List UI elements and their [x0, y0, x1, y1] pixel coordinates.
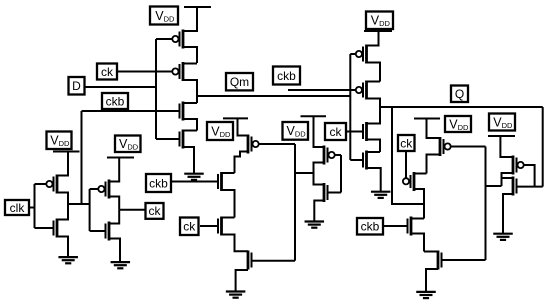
svg-text:ck: ck — [149, 204, 162, 218]
VDD label box (keeper inverter) — [283, 122, 309, 140]
wire keeper inverter output — [295, 172, 314, 174]
svg-text:DD: DD — [458, 123, 469, 132]
svg-text:DD: DD — [59, 139, 70, 148]
pmos P9 (slave keeper, mirrored) — [427, 119, 486, 174]
svg-text:ckb: ckb — [149, 176, 168, 190]
nmos F1 (slave keeper, gate ckb) — [408, 217, 425, 252]
node master keeper input bus — [294, 144, 296, 261]
D label box — [69, 77, 85, 95]
node Qm output wire — [197, 95, 350, 97]
svg-text:Q: Q — [455, 87, 464, 101]
node keeper inverter gate bus — [340, 155, 342, 193]
VDD label box (inverter 2) — [115, 136, 141, 153]
wire ck node — [119, 209, 146, 211]
nmos T1 (master keeper, gate ckb) — [218, 172, 235, 218]
svg-text:DD: DD — [502, 121, 513, 130]
svg-text:ckb: ckb — [361, 220, 380, 234]
VDD rail (slave stage) — [364, 30, 392, 32]
ckb label box (slave P8 gate) — [273, 67, 300, 85]
VDD rail (output inverter) — [488, 135, 515, 137]
pmos P3 (inverter 1) — [35, 152, 69, 205]
VDD rail (keeper inverter) — [301, 115, 327, 117]
ckb label box (keeper F1 gate) — [357, 218, 383, 235]
VDD rail (master stage) — [183, 7, 211, 31]
ground (master keeper) — [226, 292, 246, 298]
node inverter 2 gate bus — [89, 189, 91, 231]
nmos F2 (slave keeper, mirrored) — [424, 251, 486, 292]
wire Q feedback tap — [392, 107, 424, 204]
nmos N11 (output inverter, mirrored) — [502, 177, 543, 234]
nmos N6 (keeper inverter, mirrored) — [314, 173, 342, 222]
wire Qbar output — [486, 185, 502, 187]
ck label box (master P2 gate) — [97, 64, 117, 80]
svg-text:Qm: Qm — [230, 75, 249, 89]
ground (slave keeper) — [416, 292, 436, 298]
pmos P2 (master, gate ck) — [172, 62, 197, 103]
wire ck to P10 gate — [405, 151, 407, 178]
ground (master) — [184, 174, 204, 180]
svg-text:ckb: ckb — [277, 69, 296, 83]
node output inverter gate bus — [542, 107, 544, 187]
svg-text:DD: DD — [379, 19, 390, 28]
Qm label box — [226, 73, 253, 90]
pmos P8 (slave, gate ckb) — [356, 81, 380, 108]
VDD label box (master) — [150, 7, 178, 25]
nmos N4 (inverter 2) — [90, 210, 120, 262]
ckb label box (keeper T1 gate) — [146, 174, 171, 192]
ground (keeper inverter) — [305, 222, 325, 228]
wire ckb riser — [81, 111, 83, 204]
wire ckb to P8 gate — [288, 89, 356, 91]
svg-text:ckb: ckb — [106, 94, 125, 108]
pmos P5 (master keeper, mirrored) — [235, 118, 296, 173]
wire ckb node — [68, 203, 90, 205]
nmos N7 (slave, gate ck) — [363, 107, 380, 152]
VDD rail (master keeper) — [223, 117, 248, 119]
wire ckb to N1 gate — [82, 110, 179, 112]
wire ckb to F1 gate — [383, 225, 407, 227]
nmos N1 (master, gate ckb) — [180, 102, 198, 131]
node Q output wire — [380, 106, 543, 108]
pmos P10 (slave keeper, gate ck) — [403, 172, 427, 219]
node inverter 1 gate bus — [34, 184, 36, 228]
nmos N2 (master, gate D) — [156, 130, 197, 174]
wire ck to N7 gate — [346, 131, 362, 133]
ck label box (slave N7 gate) — [325, 123, 346, 140]
ck label box (keeper T2 gate) — [180, 218, 199, 236]
VDD label box (slave) — [366, 12, 393, 30]
nmos N8 (slave, gate Qm) — [350, 151, 380, 192]
pmos P11 (output inverter, mirrored) — [500, 136, 534, 187]
pmos P1 (master, gate D) — [156, 30, 197, 64]
wire ck to P2 gate — [117, 71, 172, 73]
svg-text:ck: ck — [330, 125, 343, 139]
wire clk input — [29, 207, 35, 209]
ground (inverter 1) — [58, 257, 77, 263]
pmos P7 (slave, gate Qm) — [350, 31, 380, 82]
pmos P4 (inverter 2) — [90, 158, 120, 210]
wire ckb to T1 gate — [170, 181, 217, 183]
VDD label box (inverter 1) — [47, 132, 72, 150]
svg-text:DD: DD — [220, 130, 231, 139]
svg-text:DD: DD — [164, 14, 175, 23]
VDD label box (output inverter) — [489, 114, 515, 131]
Q label box — [451, 86, 468, 103]
VDD rail (slave keeper) — [414, 118, 440, 120]
nmos N3 (inverter 1) — [35, 204, 69, 257]
nmos T3 (master keeper, mirrored) — [236, 251, 295, 292]
VDD label box (master keeper) — [207, 122, 233, 140]
svg-text:DD: DD — [295, 130, 306, 139]
node slave gate bus — [349, 54, 351, 160]
ckb label box (master N1 gate) — [102, 93, 128, 109]
node D gate bus — [155, 39, 157, 139]
svg-text:ck: ck — [400, 136, 413, 150]
svg-text:ck: ck — [183, 220, 196, 234]
node slave keeper input bus — [485, 147, 487, 261]
ground (output inverter) — [493, 234, 513, 240]
svg-text:ck: ck — [101, 65, 114, 79]
ck label box (inverter 2 output) — [146, 203, 164, 219]
VDD rail (clk inverter 2) — [107, 157, 134, 159]
ground (slave) — [371, 192, 391, 198]
ck label box (keeper P10 gate) — [398, 135, 415, 151]
ground (inverter 2) — [111, 262, 131, 268]
pmos P6 (keeper inverter, mirrored) — [314, 116, 342, 173]
svg-text:clk: clk — [10, 201, 26, 215]
VDD rail (clk inverter 1) — [53, 151, 80, 153]
svg-text:DD: DD — [127, 143, 138, 152]
nmos T2 (master keeper, gate ck) — [218, 217, 248, 252]
svg-text:D: D — [72, 79, 81, 93]
VDD label box (slave keeper) — [445, 116, 471, 132]
wire D input — [85, 86, 156, 88]
wire ck to T2 gate — [200, 225, 217, 227]
clk label box — [5, 200, 29, 215]
